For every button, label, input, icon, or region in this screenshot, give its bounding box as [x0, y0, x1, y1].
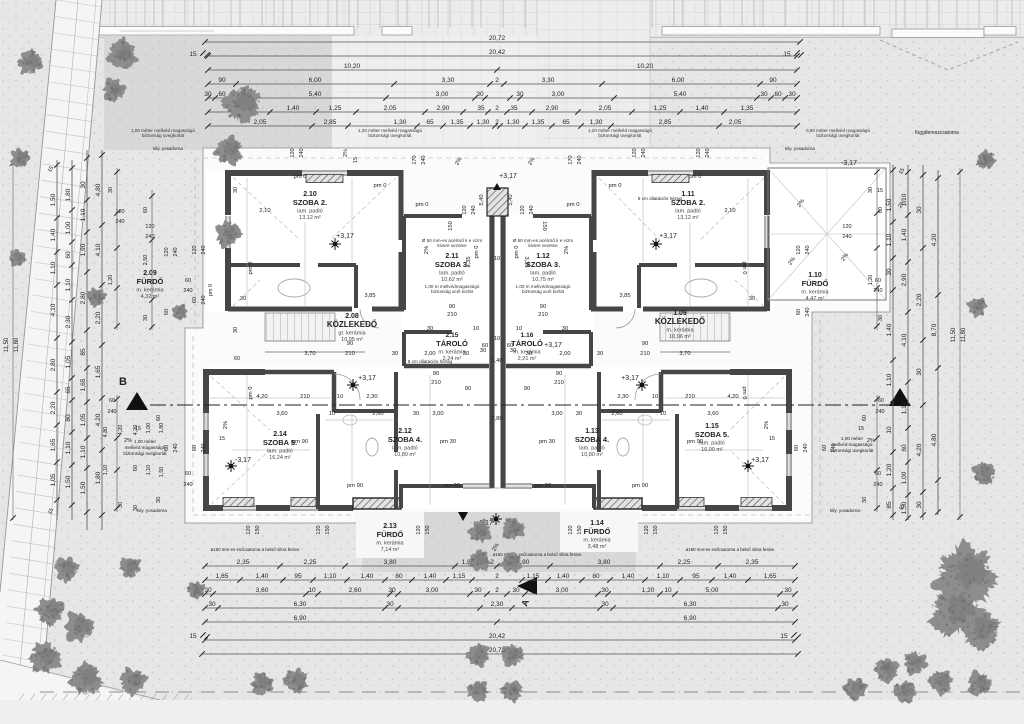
road strip along left boundary: [0, 0, 102, 690]
svg-text:1,20: 1,20: [886, 463, 893, 476]
svg-text:60: 60: [65, 251, 72, 259]
svg-text:biztonsági üvegkorlát: biztonsági üvegkorlát: [598, 133, 642, 138]
svg-text:TÁROLÓ: TÁROLÓ: [511, 339, 543, 348]
wall right unit SZOBA3 west: [589, 216, 593, 310]
svg-text:60: 60: [143, 207, 149, 213]
svg-text:1,00 méter: 1,00 méter: [134, 439, 156, 444]
svg-text:1.09: 1.09: [673, 310, 687, 317]
garden wall bar small: [382, 27, 412, 36]
svg-text:10: 10: [329, 411, 335, 417]
svg-text:240: 240: [183, 482, 192, 488]
paved terrace below building centre: [362, 512, 636, 572]
svg-text:8 cm dilatációs hézag: 8 cm dilatációs hézag: [408, 359, 453, 364]
svg-text:150: 150: [448, 221, 454, 231]
wall right unit WC east: [659, 372, 664, 412]
window sill hatch south b: [679, 498, 704, 507]
wall left unit lower west mid: [203, 430, 209, 454]
svg-text:30: 30: [868, 187, 874, 193]
svg-text:5,00: 5,00: [706, 587, 719, 594]
svg-text:1,15: 1,15: [453, 573, 466, 580]
wall right unit SZOBA5 east partition: [675, 414, 679, 509]
svg-text:lam. padló: lam. padló: [675, 209, 700, 215]
chimney block top of party wall: [487, 188, 508, 216]
roof drip dashed V top-centre: [356, 38, 512, 66]
left margin vertical chain line: [116, 168, 118, 330]
wall right unit corridor north east part: [591, 307, 623, 312]
wall right unit WC south: [597, 409, 661, 413]
svg-text:1,50: 1,50: [50, 193, 57, 206]
svg-text:30: 30: [516, 91, 524, 98]
wall right unit TAROLO north: [543, 330, 591, 334]
svg-text:60: 60: [164, 309, 170, 315]
svg-text:biztonsági üvegkorlát: biztonsági üvegkorlát: [830, 448, 874, 453]
svg-text:1,10: 1,10: [65, 441, 72, 454]
svg-text:6,00: 6,00: [672, 77, 685, 84]
svg-text:+3,17: +3,17: [544, 342, 562, 349]
svg-text:+3,17: +3,17: [659, 233, 677, 240]
svg-text:10,75 m²: 10,75 m²: [532, 277, 554, 283]
roof drip dashed V top-right: [880, 40, 1018, 70]
svg-text:150: 150: [255, 525, 261, 534]
top dimension chain row6: [208, 111, 797, 113]
svg-text:30: 30: [862, 497, 868, 503]
wall right unit SZOBA2 east lower: [592, 252, 597, 311]
svg-text:+3,17: +3,17: [751, 457, 769, 464]
svg-text:1,10: 1,10: [886, 233, 893, 246]
tree cluster bottom-left: [54, 556, 80, 584]
left vertical dimension chain 1: [56, 160, 58, 520]
svg-text:20,42: 20,42: [489, 49, 506, 56]
svg-text:15: 15: [877, 188, 883, 194]
svg-text:16,24 m²: 16,24 m²: [269, 455, 291, 461]
svg-text:15: 15: [189, 51, 197, 58]
svg-text:90: 90: [347, 341, 353, 347]
svg-text:10,96 m²: 10,96 m²: [669, 334, 691, 340]
svg-text:1,80: 1,80: [65, 188, 72, 201]
wall right unit SZOBA2 top-west: [693, 170, 770, 176]
svg-text:30: 30: [601, 601, 609, 608]
svg-text:1.14: 1.14: [590, 520, 604, 527]
svg-text:60: 60: [109, 398, 115, 404]
svg-text:3,60: 3,60: [276, 411, 287, 417]
svg-text:1,30: 1,30: [507, 119, 520, 126]
svg-text:6,30: 6,30: [294, 601, 307, 608]
top dimension chain row4: [208, 83, 797, 85]
svg-text:4,20: 4,20: [256, 394, 267, 400]
ground level arrow top centre: [493, 183, 501, 190]
svg-text:170: 170: [568, 155, 574, 164]
svg-text:60: 60: [185, 471, 191, 477]
wall right unit SZOBA2 west upper: [764, 170, 770, 215]
svg-text:240: 240: [831, 443, 837, 452]
svg-text:90: 90: [465, 386, 471, 392]
svg-text:pm 0: pm 0: [416, 202, 429, 208]
svg-text:pm 0: pm 0: [567, 202, 580, 208]
svg-text:4,32 m²: 4,32 m²: [141, 294, 160, 300]
svg-text:gr. kerámia: gr. kerámia: [338, 331, 366, 337]
svg-text:240: 240: [173, 443, 179, 452]
svg-text:lam. padló: lam. padló: [392, 446, 417, 452]
svg-text:4,47 m²: 4,47 m²: [806, 296, 825, 302]
fence posts top strip: [99, 0, 101, 28]
svg-text:1,05: 1,05: [65, 355, 72, 368]
svg-text:150: 150: [577, 525, 583, 534]
svg-text:120: 120: [796, 245, 802, 254]
svg-text:150: 150: [325, 525, 331, 534]
svg-text:1,10: 1,10: [50, 261, 57, 274]
wall left unit corridor north east part: [372, 307, 404, 312]
svg-text:kily. yosadorna: kily. yosadorna: [137, 508, 167, 513]
svg-text:30: 30: [474, 587, 482, 594]
wall right unit SZOBA4 west partition upper: [597, 372, 601, 452]
svg-text:+3,17: +3,17: [358, 375, 376, 382]
svg-text:7,14 m²: 7,14 m²: [381, 547, 400, 553]
svg-text:1,40: 1,40: [886, 323, 893, 336]
wall right unit SZOBA2 east: [592, 170, 597, 240]
svg-text:120: 120: [644, 525, 650, 534]
svg-text:1,40: 1,40: [724, 573, 737, 580]
svg-text:210: 210: [447, 312, 457, 318]
svg-text:1,40: 1,40: [901, 228, 908, 241]
svg-text:240: 240: [421, 155, 427, 164]
svg-text:2.08: 2.08: [345, 313, 359, 320]
svg-text:60: 60: [774, 91, 782, 98]
svg-text:2: 2: [495, 573, 499, 580]
trees right side: [976, 149, 997, 169]
bath south hatched wall block: [594, 498, 642, 509]
svg-text:3,00: 3,00: [436, 91, 449, 98]
svg-text:1,35: 1,35: [451, 119, 464, 126]
svg-text:30: 30: [512, 587, 520, 594]
svg-text:2%: 2%: [124, 438, 132, 444]
wall right unit lower block north-west: [730, 369, 789, 375]
svg-text:80: 80: [395, 573, 403, 580]
svg-text:85: 85: [80, 348, 87, 356]
bathtub right unit upper bath: [685, 279, 717, 297]
right vertical dimension chain 2: [907, 165, 909, 520]
svg-text:pm 0: pm 0: [689, 174, 702, 180]
svg-text:60: 60: [875, 278, 881, 284]
svg-text:2%: 2%: [564, 246, 570, 254]
svg-text:90: 90: [769, 77, 777, 84]
svg-text:90: 90: [433, 371, 439, 377]
svg-text:2,25: 2,25: [678, 559, 691, 566]
svg-text:1,40: 1,40: [424, 573, 437, 580]
svg-text:1,65: 1,65: [216, 573, 229, 580]
svg-text:biztonság acél korlát: biztonság acél korlát: [431, 289, 474, 294]
svg-text:60: 60: [878, 207, 884, 213]
svg-text:60: 60: [234, 356, 240, 362]
svg-text:2,05: 2,05: [729, 119, 742, 126]
svg-text:1,40: 1,40: [557, 573, 570, 580]
svg-text:3,60: 3,60: [256, 587, 269, 594]
svg-text:1,65: 1,65: [764, 573, 777, 580]
svg-text:30: 30: [386, 601, 394, 608]
wall right unit south wall w1: [772, 505, 792, 511]
svg-text:pm 0: pm 0: [514, 246, 520, 259]
garden wall bar top-right-mid: [662, 27, 880, 36]
svg-text:210: 210: [554, 380, 564, 386]
svg-text:2,50: 2,50: [143, 255, 149, 266]
wall left unit upper bath partition: [231, 263, 300, 267]
svg-text:240: 240: [201, 443, 207, 452]
svg-text:120: 120: [520, 205, 526, 214]
svg-text:3,30: 3,30: [442, 77, 455, 84]
svg-text:biztonsági üvegkorlát: biztonsági üvegkorlát: [123, 451, 167, 456]
svg-text:120: 120: [246, 525, 252, 534]
bottom dimension chain b2: [205, 579, 795, 581]
svg-text:1.11: 1.11: [681, 191, 694, 198]
svg-text:1,90: 1,90: [80, 243, 87, 256]
svg-text:2,60: 2,60: [372, 411, 383, 417]
svg-text:240: 240: [873, 482, 882, 488]
svg-text:85: 85: [886, 501, 893, 509]
svg-text:150: 150: [723, 525, 729, 534]
svg-text:10: 10: [494, 256, 500, 262]
party wall hatch fill: [490, 214, 506, 488]
svg-text:2.09: 2.09: [143, 270, 157, 277]
svg-text:1,50: 1,50: [65, 475, 72, 488]
road boundary lines: [0, 0, 56, 592]
svg-text:240: 240: [471, 205, 477, 214]
svg-text:60: 60: [875, 471, 881, 477]
svg-text:1,20: 1,20: [868, 275, 874, 286]
left vertical dimension chain 3: [86, 150, 88, 530]
svg-text:150: 150: [425, 525, 431, 534]
wall left unit lower block north-west: [206, 369, 265, 375]
svg-text:3,80: 3,80: [384, 559, 397, 566]
svg-text:pm 90: pm 90: [687, 439, 703, 445]
svg-text:SZOBA 4.: SZOBA 4.: [575, 435, 609, 444]
room interiors: [206, 170, 401, 312]
svg-text:1,50: 1,50: [159, 467, 165, 478]
wall left unit SZOBA2 west lower: [225, 248, 231, 311]
svg-text:kily. yosadorna: kily. yosadorna: [830, 508, 860, 513]
svg-text:-3,17: -3,17: [841, 160, 857, 167]
wall left unit south wall w1: [203, 505, 223, 511]
wall right unit TAROLO south: [506, 364, 591, 369]
svg-text:11,50: 11,50: [951, 327, 957, 342]
wall left unit WC east: [332, 372, 337, 412]
svg-text:4,80: 4,80: [95, 183, 102, 196]
svg-text:60: 60: [133, 465, 139, 471]
wall left unit corridor north: [228, 307, 352, 312]
wall right unit bath south wall: [532, 484, 594, 488]
svg-text:120: 120: [316, 525, 322, 534]
svg-text:240: 240: [183, 288, 192, 294]
svg-text:120: 120: [568, 525, 574, 534]
svg-text:-3,17: -3,17: [235, 457, 251, 464]
svg-text:30: 30: [108, 187, 114, 193]
annex 1.10 outline: [768, 168, 886, 300]
svg-text:10: 10: [664, 587, 672, 594]
svg-text:1,80: 1,80: [159, 423, 165, 434]
svg-text:240: 240: [641, 148, 647, 157]
svg-text:240: 240: [705, 148, 711, 157]
section marker B right triangle: [889, 388, 911, 406]
wall right unit TAROLO west: [589, 332, 593, 366]
svg-text:2,60: 2,60: [349, 587, 362, 594]
right vertical dimension chain 4: [937, 170, 939, 515]
svg-text:30: 30: [156, 497, 162, 503]
bottom dimension chain b3: [205, 593, 795, 595]
svg-text:2,05: 2,05: [384, 105, 397, 112]
left margin chain line 2: [151, 190, 153, 330]
svg-text:30: 30: [510, 348, 516, 354]
window sill hatch south a: [223, 498, 254, 507]
svg-text:30: 30: [476, 91, 484, 98]
svg-text:pm 0: pm 0: [609, 183, 622, 189]
svg-text:1,10: 1,10: [80, 208, 87, 221]
svg-text:1,10: 1,10: [657, 573, 670, 580]
svg-text:FÜRDŐ: FÜRDŐ: [802, 279, 829, 288]
svg-text:1.16: 1.16: [521, 332, 534, 339]
svg-text:lam. padló: lam. padló: [439, 271, 464, 277]
svg-text:2,80: 2,80: [491, 416, 502, 422]
svg-text:3,70: 3,70: [304, 351, 315, 357]
svg-text:30: 30: [597, 351, 603, 357]
svg-text:lam. padló: lam. padló: [297, 209, 322, 215]
svg-text:3,00: 3,00: [426, 587, 439, 594]
top dimension chain row5: [208, 97, 797, 99]
svg-text:210: 210: [640, 351, 650, 357]
svg-text:1,65: 1,65: [95, 365, 102, 378]
neighbour building ground white patch above terrace: [332, 36, 540, 150]
wall right unit lower west lower: [786, 476, 792, 509]
svg-text:1,00: 1,00: [65, 221, 72, 234]
svg-text:m. kerámia: m. kerámia: [376, 541, 404, 547]
svg-text:120: 120: [416, 525, 422, 534]
WC fixture right unit: [617, 438, 629, 456]
svg-text:210: 210: [345, 351, 355, 357]
svg-text:30: 30: [878, 315, 884, 321]
svg-text:KÖZLEKEDŐ: KÖZLEKEDŐ: [655, 317, 705, 326]
svg-text:2,30: 2,30: [491, 601, 504, 608]
svg-text:10,80 m²: 10,80 m²: [394, 452, 416, 458]
svg-text:4,10: 4,10: [95, 243, 102, 256]
svg-text:pm 90: pm 90: [292, 439, 308, 445]
svg-text:pm 30: pm 30: [440, 439, 456, 445]
svg-text:30: 30: [388, 587, 396, 594]
svg-text:60: 60: [156, 415, 162, 421]
svg-text:2,10: 2,10: [724, 208, 735, 214]
svg-text:30: 30: [526, 351, 532, 357]
svg-text:2,00: 2,00: [424, 351, 435, 357]
svg-text:4,20: 4,20: [118, 425, 124, 436]
svg-text:5,40: 5,40: [508, 194, 514, 205]
svg-text:60: 60: [901, 444, 908, 452]
svg-text:1.12: 1.12: [536, 253, 550, 260]
svg-text:1,00 méter: 1,00 méter: [841, 436, 863, 441]
svg-text:1,20: 1,20: [642, 587, 655, 594]
svg-text:90: 90: [449, 304, 455, 310]
svg-text:1,10: 1,10: [324, 573, 337, 580]
wall left unit lower block north-mid: [265, 370, 334, 375]
left vertical dimension chain 4: [101, 150, 103, 530]
wall right unit lower block north-mid: [661, 370, 730, 375]
svg-text:30: 30: [392, 351, 398, 357]
svg-text:2.12: 2.12: [398, 428, 412, 435]
svg-text:2,35: 2,35: [746, 559, 759, 566]
svg-text:3,30: 3,30: [542, 77, 555, 84]
svg-text:3,70: 3,70: [679, 351, 690, 357]
svg-text:20,42: 20,42: [489, 633, 506, 640]
svg-text:1,40: 1,40: [256, 573, 269, 580]
svg-text:120: 120: [192, 245, 198, 254]
svg-text:5,40: 5,40: [309, 91, 322, 98]
svg-text:10: 10: [652, 394, 658, 400]
svg-text:pm 0: pm 0: [741, 387, 747, 400]
svg-text:10: 10: [337, 394, 343, 400]
svg-text:11,80: 11,80: [961, 327, 967, 342]
svg-text:2: 2: [495, 77, 499, 84]
svg-text:pm 30: pm 30: [539, 439, 555, 445]
svg-text:2,10: 2,10: [259, 208, 270, 214]
svg-text:1,25: 1,25: [329, 105, 342, 112]
window sill hatch upper room: [652, 175, 689, 183]
svg-text:95: 95: [294, 573, 302, 580]
svg-text:+3,17: +3,17: [621, 375, 639, 382]
svg-text:30: 30: [133, 505, 139, 511]
window sill hatch south a: [741, 498, 772, 507]
wall left unit lower west lower: [203, 476, 209, 509]
svg-text:kivüre vezetve: kivüre vezetve: [437, 243, 467, 248]
top dimension chain 20,42: [208, 55, 797, 57]
garden wall bar top-left: [98, 27, 354, 36]
central party wall east leaf: [501, 214, 506, 488]
svg-text:SZOBA 4.: SZOBA 4.: [388, 435, 422, 444]
svg-text:15: 15: [783, 51, 791, 58]
svg-text:90: 90: [218, 77, 226, 84]
svg-text:pm 0: pm 0: [248, 262, 254, 275]
svg-text:1,20: 1,20: [108, 275, 114, 286]
svg-text:2%: 2%: [343, 149, 349, 157]
svg-text:6,90: 6,90: [294, 615, 307, 622]
svg-text:2,30: 2,30: [65, 315, 72, 328]
svg-text:210: 210: [300, 394, 310, 400]
svg-text:2%: 2%: [223, 421, 229, 429]
door arc right unit corridor: [616, 309, 635, 328]
svg-text:1,15: 1,15: [527, 573, 540, 580]
svg-text:15: 15: [858, 426, 864, 432]
svg-text:pm 0: pm 0: [294, 174, 307, 180]
svg-text:10: 10: [494, 336, 500, 342]
svg-text:2,30: 2,30: [366, 394, 377, 400]
svg-text:2,60: 2,60: [611, 411, 622, 417]
svg-text:240: 240: [805, 245, 811, 254]
svg-text:pm 0: pm 0: [208, 284, 214, 296]
svg-text:2: 2: [495, 587, 499, 594]
svg-text:120: 120: [842, 224, 851, 230]
svg-text:90: 90: [540, 304, 546, 310]
door arc left unit hall: [334, 374, 360, 400]
wall left unit upper bath partition east: [318, 263, 356, 267]
eaves dashed offset line: [193, 158, 820, 515]
svg-text:SZOBA 2.: SZOBA 2.: [293, 198, 327, 207]
svg-text:240: 240: [805, 307, 811, 316]
svg-text:10: 10: [516, 326, 522, 332]
svg-text:30: 30: [463, 351, 469, 357]
svg-text:1.15: 1.15: [705, 423, 719, 430]
bath south hatched wall block: [353, 498, 401, 509]
wall right unit SZOBA2 top-east: [592, 170, 648, 176]
bottom boundary strip: [0, 700, 1024, 724]
interior measure lines right unit: [747, 178, 749, 306]
garden wall bar far right: [892, 29, 984, 38]
svg-text:1,50: 1,50: [80, 481, 87, 494]
stair flight left unit corridor: [265, 313, 335, 341]
wall right unit upper bath partition south: [637, 265, 641, 308]
